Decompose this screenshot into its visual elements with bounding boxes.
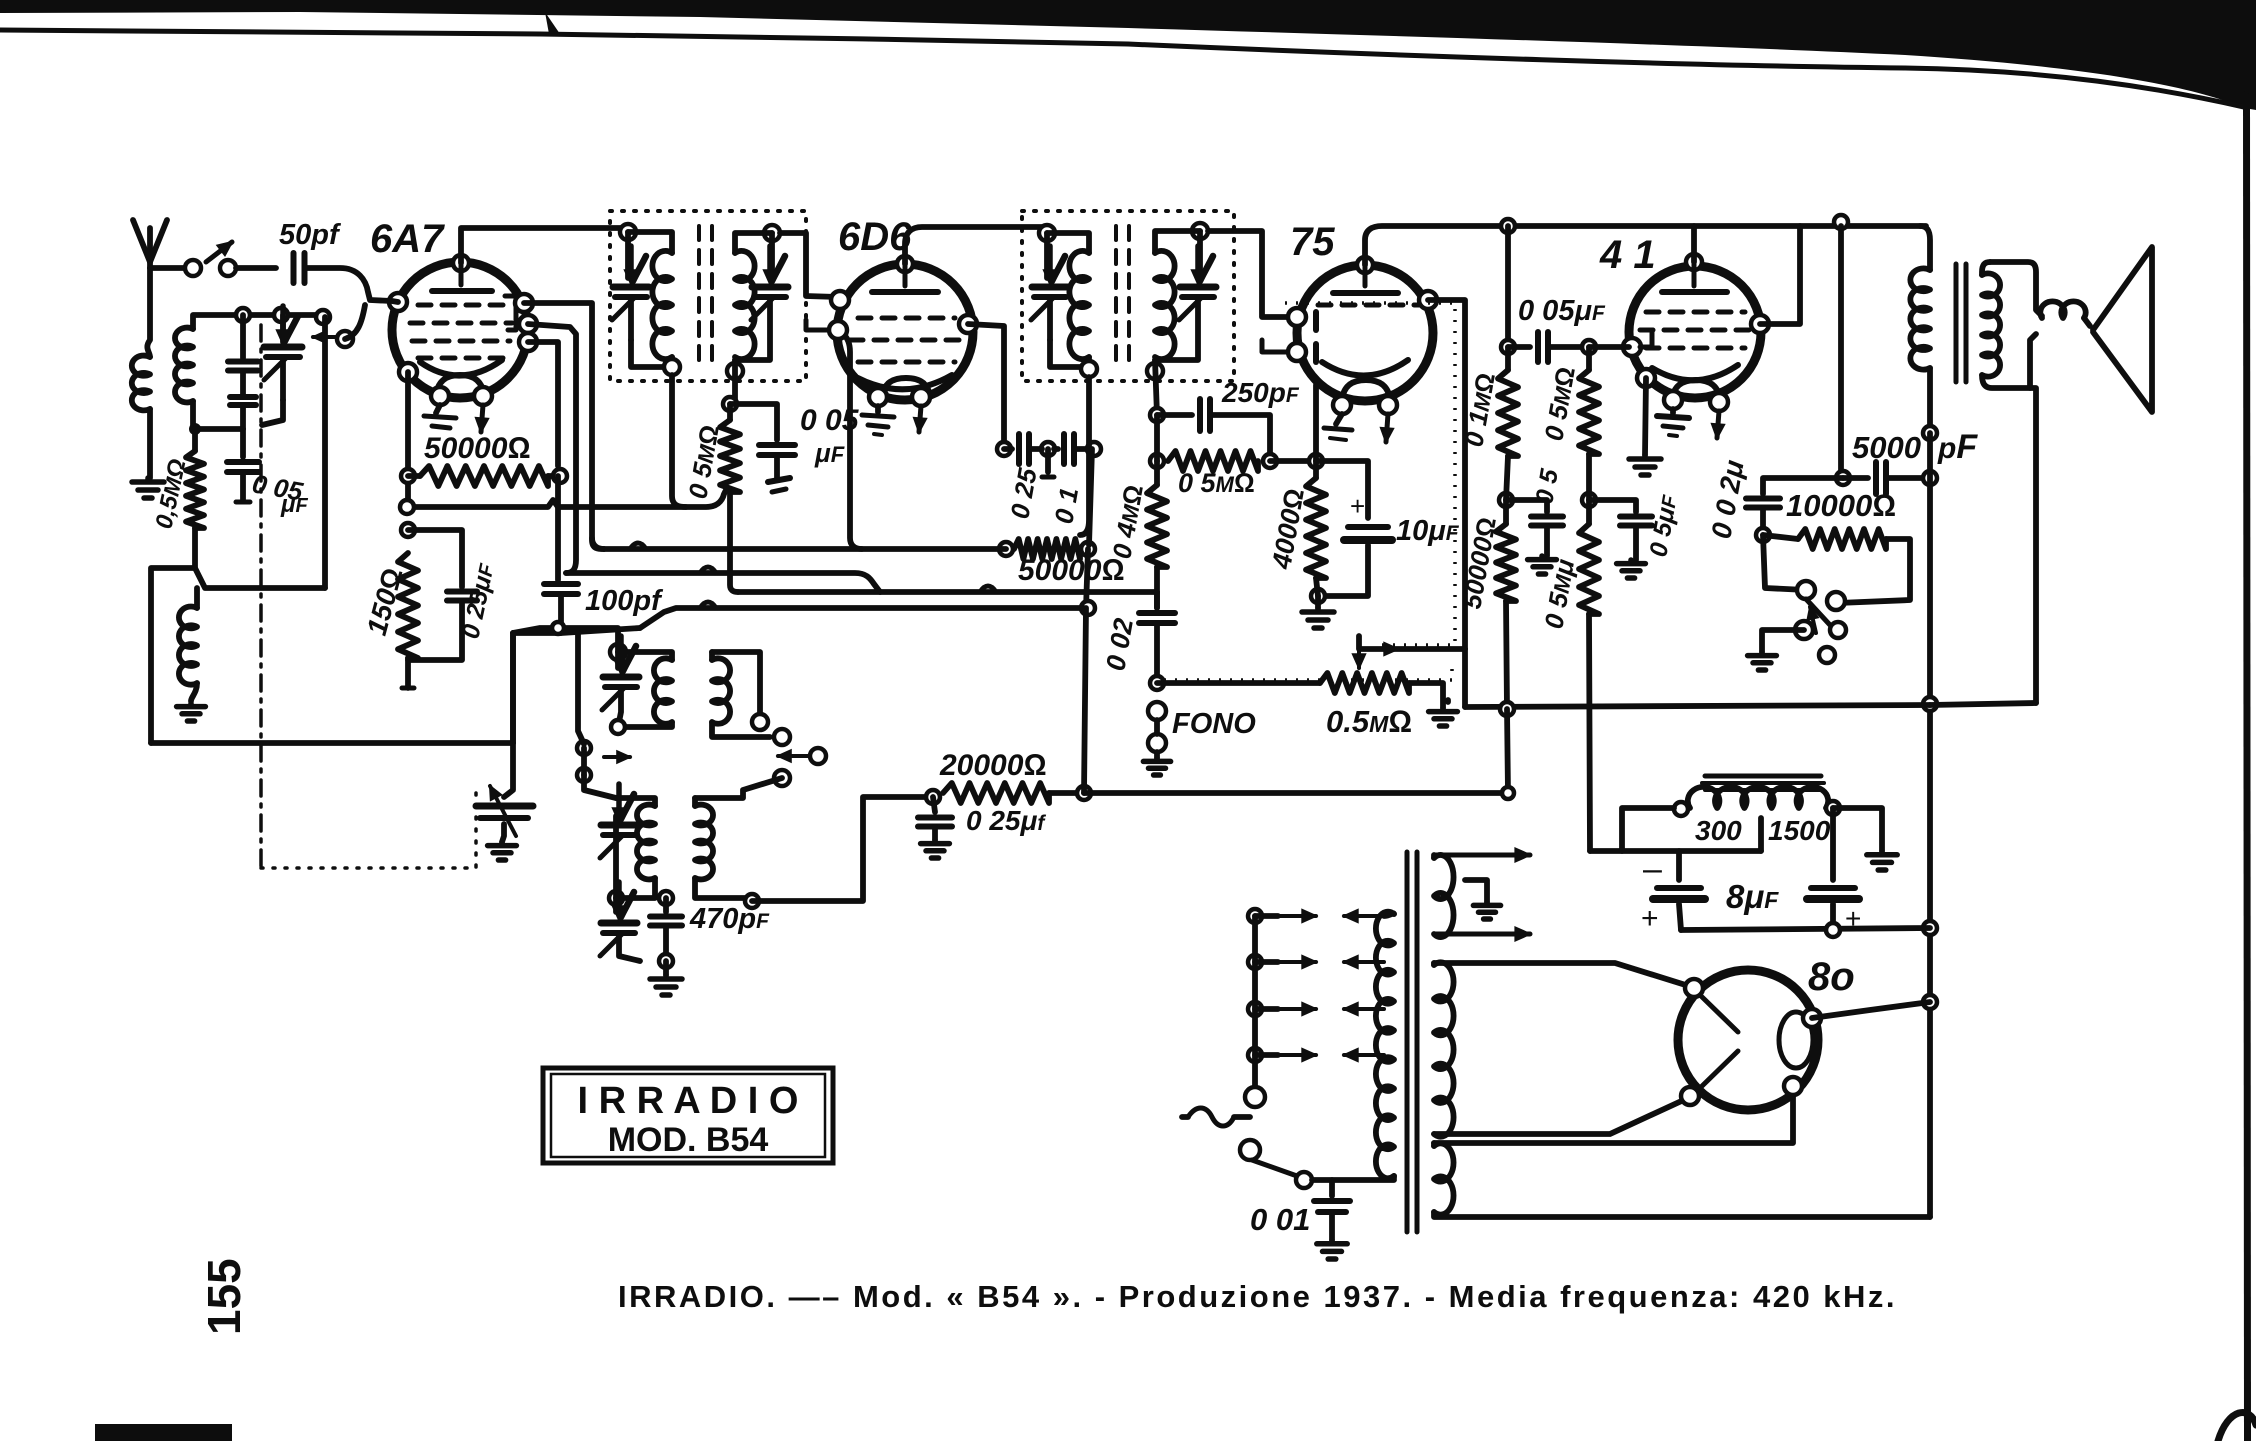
capacitor 0 05uF coupling — [1501, 340, 1515, 354]
svg-text:–: – — [1643, 850, 1662, 888]
ground antenna primary — [145, 478, 151, 480]
pot wiper arrow — [1357, 636, 1361, 668]
75 pins bottom — [1333, 396, 1351, 414]
row4-5 right riser to 0 02 — [1154, 592, 1160, 608]
6A7 internal anode hook — [505, 296, 516, 330]
HT winding — [1431, 963, 1437, 965]
riser to 5000pF — [1838, 226, 1844, 478]
75 internal plate bar — [1363, 265, 1368, 286]
tuning trimmer capacitor antenna — [280, 315, 286, 342]
big tuning capacitor main — [504, 743, 513, 797]
ground right of 0.5M label — [1445, 700, 1451, 702]
wire 50000 right end down 100pF — [555, 476, 561, 580]
capacitor 250pF — [1157, 412, 1192, 418]
6A7 internal grid dashes — [418, 303, 431, 308]
switch mains — [1245, 1087, 1265, 1107]
svg-text:100pf: 100pf — [585, 585, 664, 617]
page top black scan band — [0, 0, 2256, 110]
filter choke coil — [1674, 802, 1688, 816]
80 filament ellipse — [1779, 1012, 1813, 1068]
filter choke core lines — [1705, 774, 1821, 779]
svg-text:300: 300 — [1695, 815, 1742, 846]
IF1 secondary coil — [764, 225, 780, 241]
svg-text:I R R A D I O: I R R A D I O — [578, 1080, 799, 1122]
dotted gang box bottom — [261, 790, 476, 868]
6D6 plate side wire to bus — [968, 324, 1004, 443]
41 filament arrow — [1717, 411, 1719, 438]
second 8uF cap — [1830, 808, 1836, 880]
tube 6D6 — [837, 264, 973, 400]
75 plate pin right — [1419, 291, 1437, 309]
oscillator bottom-right coil — [692, 798, 698, 806]
svg-text:1500: 1500 — [1768, 815, 1831, 846]
wire IF2 top to 75 grid bracket — [1208, 231, 1297, 317]
6D6 grid dashes — [858, 316, 871, 321]
IF1 primary top node — [620, 224, 636, 240]
IF1 core dashed lines — [697, 226, 701, 366]
riser caps-resistor to bus junction — [1086, 549, 1088, 608]
41 ground under tube — [1670, 409, 1676, 413]
resistor 0 5Mohm grid 41 — [1579, 370, 1599, 454]
capacitor 470pF — [659, 891, 673, 905]
41 grid dashes — [1646, 310, 1659, 315]
75 ground under tube — [1336, 414, 1342, 424]
wire 6A7 pin3 down to 100pF line — [528, 342, 558, 466]
IF2 primary coil — [1047, 233, 1089, 253]
svg-text:μF: μF — [814, 438, 845, 468]
AVC arrow into grid line — [313, 335, 341, 339]
IF1 dotted box — [610, 211, 806, 381]
6D6 pins — [831, 291, 849, 309]
wire bus y628 from x513 riser — [510, 633, 516, 743]
75 filament arrow — [1386, 414, 1388, 442]
pot right end to ground — [1409, 683, 1443, 708]
svg-text:155: 155 — [198, 1258, 250, 1335]
wire 20000 to right junction — [1049, 790, 1084, 796]
svg-text:0.5MΩ: 0.5MΩ — [1326, 704, 1412, 739]
41 plate side pin — [1751, 315, 1769, 333]
svg-text:+: + — [1641, 902, 1659, 935]
ground 150ohm — [402, 686, 414, 691]
svg-text:μF: μF — [280, 491, 308, 518]
bus row1 y507 — [407, 490, 726, 507]
power transformer core — [1405, 852, 1410, 1232]
41 internal plate bar — [1692, 262, 1697, 286]
IF2 dotted box — [1022, 211, 1234, 381]
oscillator top coil top node — [610, 644, 626, 660]
6D6 filament arrow — [919, 406, 921, 432]
75 filament dome — [1342, 380, 1390, 400]
node below — [774, 770, 790, 786]
svg-text:50000Ω: 50000Ω — [424, 432, 530, 465]
cathode bypass 0 25uF — [408, 530, 462, 587]
capacitor 5000pF — [1836, 471, 1850, 485]
ground 470pF — [663, 961, 669, 975]
bypass cap 0 5uF 41 cathode — [1589, 500, 1636, 512]
IF2 core dashed lines — [1114, 226, 1118, 366]
bus row4 y573 — [566, 573, 880, 592]
80 cathode lead right — [1812, 1002, 1930, 1018]
tube 75 — [1297, 265, 1433, 401]
svg-text:IRRADIO. —– Mod. « B54 ». - Pr: IRRADIO. —– Mod. « B54 ». - Produzione 1… — [618, 1279, 1897, 1314]
top rail corner down to primary — [1920, 226, 1930, 270]
branch up to choke left end — [1622, 808, 1674, 851]
wire 6A7 grid pin from antenna — [392, 301, 398, 302]
primary winding — [1384, 913, 1394, 916]
capacitor 0 01 — [1329, 1180, 1335, 1196]
HT top lead to 80 anode — [1434, 963, 1692, 987]
resistor 0 5Mohm detector — [1150, 454, 1164, 468]
choke right to ground — [1833, 808, 1882, 851]
antenna primary coil — [132, 356, 150, 411]
svg-text:pF: pF — [1937, 428, 1978, 466]
6A7 pins bottom — [431, 387, 449, 405]
IF1 secondary trimmer — [769, 233, 775, 278]
tone switch contacts — [1763, 535, 1806, 590]
volume potentiometer 0.5M — [1320, 673, 1409, 693]
wire top-right coil bottom to grid node — [712, 722, 770, 737]
capacitor 50pF — [291, 253, 297, 283]
svg-text:10000Ω: 10000Ω — [1786, 488, 1896, 523]
oscillator bottom-left trimmer — [609, 891, 623, 905]
cap 0 25uF under 20000 — [933, 797, 935, 812]
5V bottom lead to B+ vertical — [1434, 1212, 1930, 1217]
wire resistor bottom down to bus — [730, 492, 738, 592]
75 diode plates — [1313, 312, 1319, 330]
HT bottom lead to 80 anode2 — [1434, 1098, 1688, 1134]
tube 41 — [1629, 266, 1761, 398]
5V winding — [1431, 1143, 1437, 1146]
antenna secondary top wire — [193, 315, 323, 329]
6A7 pins right — [515, 294, 533, 312]
resistor 4000ohm bias — [1306, 478, 1326, 578]
oscillator top-left trimmer — [615, 652, 621, 668]
svg-text:FONO: FONO — [1172, 708, 1256, 740]
wire 5000pF left to 0 02 cap — [1763, 478, 1843, 494]
bus row3 left riser — [592, 538, 604, 549]
resistor 0,5Mohm antenna — [192, 429, 198, 451]
switch arm — [206, 242, 232, 262]
notch mark on top band — [545, 12, 560, 34]
ground 0 05uF — [768, 478, 790, 482]
6A7 cathode arc — [420, 360, 502, 376]
fixed padding capacitor — [240, 315, 246, 358]
wire antenna to switch — [150, 265, 184, 271]
IF2 secondary trimmer — [1197, 231, 1203, 278]
tube 80 — [1678, 970, 1818, 1110]
choke mid tap — [1758, 818, 1764, 851]
IF2 secondary coil — [1192, 223, 1208, 239]
rail 20000 to right — [1084, 790, 1508, 796]
node under 0 5M — [1582, 493, 1596, 507]
wire 6A7 pin1 right then down — [524, 303, 604, 549]
wire 75 plate to AVC riser — [1428, 300, 1465, 649]
bottom-right corner mark — [2218, 1412, 2256, 1441]
capacitor 0 02u — [1746, 496, 1780, 502]
voltage selector arrows left — [1278, 914, 1316, 918]
oscillator grid arrow — [778, 754, 810, 758]
10uF bottom wire — [1318, 545, 1368, 596]
first 8uF cap — [1676, 851, 1682, 880]
riser x1508 rail707 to rail793 — [1507, 709, 1508, 793]
cathode resistor 150ohm — [401, 523, 415, 537]
wire 6A7 pin2 right then down — [528, 324, 576, 573]
stub under middle node — [1045, 449, 1051, 472]
svg-text:75: 75 — [1290, 220, 1335, 264]
IF1 primary bottom lead to bus — [672, 375, 686, 507]
svg-text:5000: 5000 — [1852, 430, 1921, 465]
tone switch ground — [1762, 630, 1804, 652]
svg-text:8o: 8o — [1808, 955, 1855, 999]
FONO jack — [1148, 702, 1166, 720]
speaker cone — [2093, 247, 2152, 412]
5V top lead to 80 filament — [1434, 1090, 1793, 1143]
6A7 ground stub under tube — [436, 405, 440, 413]
antenna primary down-lead — [147, 268, 150, 357]
rail y793 labels none — [1502, 787, 1514, 799]
filament winding CT ground — [1465, 880, 1487, 902]
caps 0 25 and 0 1 row — [997, 442, 1011, 456]
bypass cap 0 5 — [1506, 500, 1547, 512]
wire 50pF to 6A7 grid — [305, 268, 392, 301]
feed arrows left — [604, 755, 630, 759]
rail y707 — [1465, 705, 1930, 707]
node IF2 sec to 250pF — [1150, 408, 1164, 422]
IF2 primary trimmer — [1044, 233, 1050, 278]
41 filament dome — [1672, 380, 1720, 400]
wire 100pF bottom — [513, 594, 561, 633]
switch to cap 0 01 — [1312, 1177, 1394, 1183]
6A7 cathode lead down — [405, 372, 411, 507]
resistor 50000ohm field divider — [1496, 524, 1516, 601]
6A7 internal top plate — [432, 288, 492, 294]
bus hops — [630, 543, 646, 549]
6D6 plate top connection — [897, 256, 913, 272]
AC plug squiggle — [1188, 1108, 1234, 1126]
wire resistor bottom to left rail — [151, 528, 195, 743]
svg-text:6A7: 6A7 — [370, 217, 445, 261]
output transformer primary coil — [1910, 268, 1930, 369]
ground 4000ohm — [1315, 596, 1321, 608]
secondary return wire down — [2030, 388, 2036, 703]
svg-text:+: + — [1350, 491, 1365, 521]
IF2 secondary bottom lead — [1155, 360, 1157, 415]
IF2 primary top node — [1039, 225, 1055, 241]
wire det resistor to cathode node — [1270, 458, 1316, 464]
wire 0 5M lower to choke feed — [1589, 614, 1590, 851]
6A7 filament dome — [436, 375, 484, 396]
svg-text:0 5MΩ: 0 5MΩ — [1178, 468, 1255, 498]
selector bus — [1248, 909, 1262, 923]
41 grid pin wire — [1623, 338, 1641, 356]
vertical 1930 down from 5000pF — [1927, 433, 1933, 1217]
tube 6A7 — [392, 262, 528, 398]
capacitor 0 05uF 6D6 grid — [730, 404, 777, 440]
node under 0 1M — [1499, 493, 1513, 507]
feed wire from 0 5M lower to choke — [1590, 848, 1761, 854]
resistor 50000ohm AVC — [999, 542, 1013, 556]
wire 75 cathode down to bias junction — [1313, 385, 1319, 461]
capacitor 0 02 — [1154, 567, 1160, 608]
41 cathode arc — [1652, 365, 1738, 380]
voltage selector arrows right — [1344, 914, 1384, 918]
svg-text:0 01: 0 01 — [1250, 1202, 1310, 1237]
bus row3 y549 — [604, 546, 1006, 552]
wire 50000 bottom to rail707 — [1506, 601, 1507, 709]
oscillator top-left coil — [618, 652, 672, 660]
svg-text:MOD. B54: MOD. B54 — [608, 1121, 769, 1159]
right page edge dark line — [2243, 90, 2251, 1441]
IF1 secondary bottom to 0.5M — [732, 360, 738, 404]
lower ground-line wire — [195, 568, 325, 588]
wire caps row to resistor riser — [1089, 449, 1092, 545]
6D6 filament dome — [882, 378, 930, 397]
svg-text:0 1: 0 1 — [1048, 485, 1084, 526]
riser 20000 junction up to bus — [1084, 608, 1086, 793]
wire switch to 50pF — [236, 265, 276, 271]
wire to 10uF cap — [1316, 461, 1368, 518]
svg-text:20000Ω: 20000Ω — [939, 749, 1046, 782]
riser x1508 from top rail — [1501, 219, 1515, 233]
resistor 0 5Mohm grid leak 6D6 — [720, 420, 740, 492]
6D6 internal plate bar — [903, 264, 908, 286]
svg-text:50pf: 50pf — [279, 219, 342, 251]
wire junction to cap — [195, 426, 243, 432]
antenna — [147, 228, 153, 268]
node junction secondary bottom — [190, 401, 196, 429]
capacitor 0 05uF antenna fixed — [240, 429, 246, 457]
6A7 plate top connection — [453, 255, 469, 271]
detector dotted box — [1285, 303, 1455, 645]
node rail to primary riser — [1834, 215, 1848, 229]
IF2 primary bottom to bus — [1080, 377, 1089, 535]
resistor 20000ohm — [926, 790, 940, 804]
wire from arrows to bottom coils — [584, 775, 616, 798]
wire 41 plate to transformer — [1760, 226, 1800, 324]
resistor 10000ohm tone — [1763, 535, 1798, 539]
bus row6 y608 — [640, 608, 1084, 628]
filament leads with arrows — [1434, 853, 1530, 858]
capacitor 10uF electrolytic — [1348, 524, 1388, 530]
vertical from grid-line node down — [322, 317, 328, 588]
trimmer below bottom-left — [613, 898, 619, 912]
resistor 0 1Mohm — [1498, 370, 1518, 456]
svg-text:0 25μf: 0 25μf — [966, 805, 1046, 836]
oscillator top-right coil — [709, 652, 715, 660]
svg-text:0 05: 0 05 — [800, 404, 860, 437]
wire down to bottom rail — [510, 633, 516, 743]
wire coil to ground — [147, 409, 153, 478]
IF1 primary coil — [628, 232, 672, 253]
node secondary top taps — [236, 308, 250, 322]
node IF1 sec bottom junction — [723, 397, 737, 411]
wire bottom rail to oscillator — [151, 740, 513, 746]
page fold line under band — [0, 30, 2244, 107]
filament winding top — [1431, 855, 1437, 858]
6A7 filament arrow — [481, 405, 483, 432]
bottom-left black bar — [95, 1424, 232, 1441]
resistor 50000ohm screen — [420, 466, 548, 486]
svg-text:6D6: 6D6 — [838, 215, 912, 259]
resistor 0 5M lower — [1579, 524, 1599, 614]
6D6 ground under tube — [875, 406, 881, 412]
oscillator bottom-left coil — [616, 798, 655, 806]
svg-text:4 1: 4 1 — [1599, 233, 1656, 277]
41 pins bottom — [1637, 369, 1655, 387]
80 plates diagonal — [1700, 995, 1738, 1032]
6A7 pins left — [389, 293, 407, 311]
label box — [543, 1068, 833, 1163]
41 plate top connection — [1686, 254, 1702, 270]
output transformer secondary — [1982, 262, 1990, 275]
75 diode dashed line — [1318, 303, 1331, 308]
bus row5 y592 — [738, 589, 1157, 595]
wire osc coil bottom to 20000 — [752, 797, 933, 901]
dash-dot gang line vertical — [259, 325, 263, 868]
wire 6D6 grid return down to bus — [843, 334, 862, 549]
41 cathode lead to ground — [1645, 378, 1646, 455]
wire 10000 right end down — [1838, 539, 1910, 603]
volume pot 0.5M wire from 0 02 — [1150, 676, 1164, 690]
75 plate top connection — [1357, 257, 1373, 273]
75 cathode arc — [1322, 360, 1408, 376]
IF1 primary trimmer — [625, 232, 631, 278]
antenna coupling coil lower — [194, 588, 200, 608]
6D6 cathode arc — [858, 375, 952, 389]
antenna secondary coil — [175, 328, 193, 403]
filter bottom rail — [1681, 928, 1930, 930]
capacitor 100pF — [544, 581, 578, 587]
80 pins — [1685, 979, 1703, 997]
output transformer core — [1954, 264, 1959, 382]
wire IF1 top to 6D6 grid bracket — [780, 233, 838, 297]
voice coil — [2040, 301, 2085, 318]
svg-text:50000Ω: 50000Ω — [1018, 554, 1124, 587]
resistor 0 4Mohm — [1154, 461, 1160, 485]
